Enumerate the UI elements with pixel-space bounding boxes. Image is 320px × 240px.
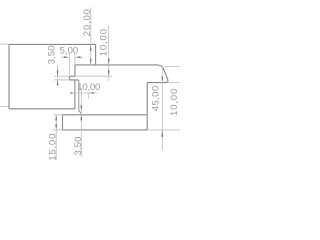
wire extension upright top right (168, 82, 180, 84)
wire dim line 10,00 middle (75, 92, 97, 94)
wire dim line 10,00 top (108, 26, 110, 82)
node arrow 3,50 bottom lower (80, 115, 82, 120)
wire dim tail 5,00 left (61, 56, 64, 58)
svg-text:3,50: 3,50 (73, 137, 84, 156)
node arrow 10,00 top upper (108, 59, 110, 65)
node arrow 20,00 upper (90, 45, 92, 51)
svg-text:10,00: 10,00 (169, 88, 180, 116)
wire bottom flange bottom edge (63, 129, 148, 131)
wire groove bottom with rounded corner (69, 80, 78, 82)
wire bottom flange top edge (63, 114, 147, 116)
wire dim line 15,00 (55, 115, 57, 161)
node arrow 45,00 upper (161, 77, 163, 82)
wire groove bottom extension left (54, 79, 69, 81)
wire dim line 3,50 top (57, 65, 59, 85)
svg-text:10,00: 10,00 (77, 82, 100, 93)
wire outer wall edge below groove (78, 82, 80, 111)
node arrow 15,00 lower (55, 124, 57, 130)
wire groove left edge (68, 76, 70, 80)
wire bottom flange left edge (62, 115, 64, 130)
wire extension 15,00 bottom (53, 129, 63, 131)
wire groove ledge (69, 75, 75, 77)
wire small step jog (79, 110, 81, 115)
wire extension 10,00 middle (87, 93, 89, 99)
node arrow 3,50 top lower (57, 80, 59, 85)
node arrow 10,00 middle left (70, 92, 75, 94)
node arrow 15,00 upper (55, 115, 57, 121)
node arrow 20,00 lower (90, 59, 92, 65)
wire bottom edge of upper wall (9, 108, 75, 110)
wire extension 5,00 right (74, 53, 76, 65)
node arrow 3,50 bottom upper (80, 106, 82, 111)
wire right upright left edge (146, 83, 148, 130)
wire top edge of upper wall (9, 43, 96, 45)
wire left edge of upper wall (8, 44, 10, 108)
node arrow 5,00 left (64, 56, 69, 58)
wire extension 5,00 left (68, 53, 70, 75)
wire ledge extension left (54, 75, 69, 77)
svg-text:45,00: 45,00 (150, 85, 161, 111)
node arrow 45,00 lower (161, 130, 163, 137)
wire ledge extension right (75, 75, 112, 77)
node arrow 10,00 middle right (89, 92, 94, 94)
wire extension flange bottom right (148, 129, 180, 131)
node arrow 10,00 top lower (108, 70, 110, 76)
svg-text:15,00: 15,00 (47, 133, 58, 161)
wire dim line 3,50 bottom (80, 88, 82, 158)
wire extension 15,00 top (53, 114, 63, 116)
wire right edge of top tab (95, 44, 97, 65)
node arrow 5,00 right (75, 56, 80, 58)
wire extension left of top corner (0, 43, 8, 45)
wire extension slant top right (164, 66, 180, 68)
wire dim tail 5,00 right (80, 56, 83, 58)
wire dim line 20,00 (90, 7, 92, 64)
wire dim line 45,00 (161, 66, 163, 151)
svg-text:10,00: 10,00 (98, 28, 109, 56)
wire long flange edge with slanted end (75, 65, 168, 83)
node arrow 3,50 top upper (57, 71, 59, 76)
svg-text:3,50: 3,50 (46, 45, 57, 64)
svg-text:20,00: 20,00 (82, 8, 93, 36)
svg-text:5,00: 5,00 (60, 45, 79, 56)
wire inner vertical wall edge (74, 65, 76, 109)
wire extension left of bottom corner (0, 106, 8, 108)
